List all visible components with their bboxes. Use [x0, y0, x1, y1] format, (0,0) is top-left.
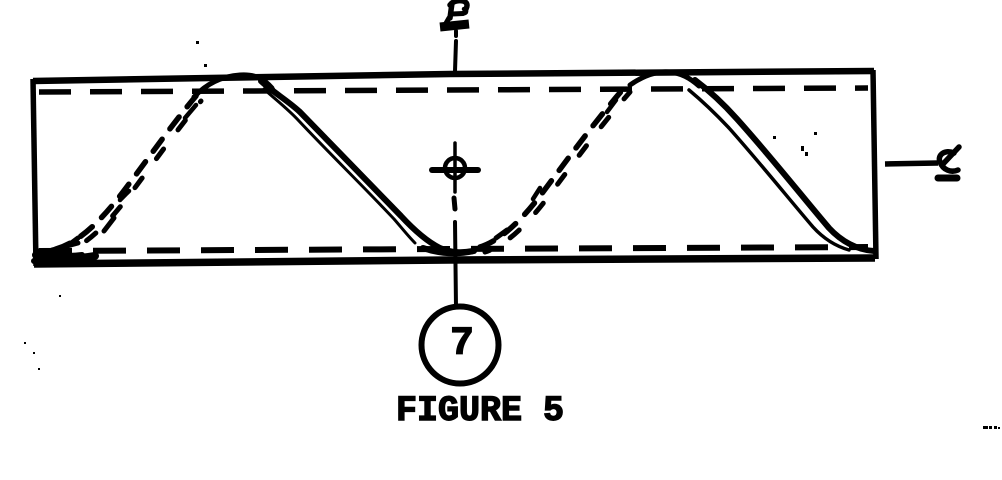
balloon circle: [422, 307, 499, 384]
tube left edge: [33, 79, 36, 266]
centre-line symbol top: [440, 1, 469, 27]
tube top edge: [33, 71, 874, 81]
stray specks: [24, 41, 1000, 429]
flight crest 2 (solid): [630, 72, 699, 86]
bore hidden line top (dashed): [39, 88, 868, 92]
centre mark horizontal bar: [432, 167, 478, 173]
left trough tick: [52, 243, 78, 250]
left trough underblob: [34, 261, 76, 263]
centreline to balloon: [455, 222, 456, 307]
ascent 2 extra dashes: [533, 188, 540, 199]
flight back ascent 2 parallel line: [485, 92, 630, 252]
flight back ascent 1 parallel line: [61, 101, 201, 254]
flight crest 1 (solid): [194, 75, 272, 97]
left trough blob: [36, 255, 95, 259]
left trough blob 2: [40, 251, 82, 256]
centreline dash below mark: [454, 198, 455, 209]
centre mark circle: [445, 158, 465, 178]
tube bottom edge: [34, 258, 875, 264]
flight front descent 1 upper line: [261, 81, 473, 252]
svg-text:7: 7: [450, 322, 474, 367]
centre-line symbol right: [938, 147, 959, 178]
trough blob at centre: [423, 248, 474, 253]
vertical centreline inside tube: [453, 143, 457, 157]
flight front descent 1 lower thin line: [264, 89, 415, 243]
right centreline leader: [885, 163, 938, 164]
ascent 1 extra dashes: [104, 218, 114, 231]
vertical centreline above tube: [454, 31, 458, 36]
tube right edge: [873, 70, 876, 259]
flight back ascent 2 (dashed): [480, 87, 625, 247]
flight front descent 2 upper line: [695, 80, 874, 251]
flight back ascent 1 (dashed, rear of helix): [56, 96, 196, 249]
svg-text:FIGURE 5: FIGURE 5: [396, 391, 564, 431]
bore hidden line bottom (dashed): [39, 247, 868, 251]
centre mark vertical through: [453, 158, 457, 192]
flight front descent 2 lower thin line: [689, 90, 849, 250]
